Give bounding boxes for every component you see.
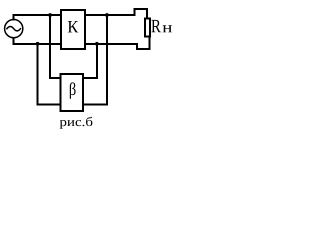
label K of amplifier [68,21,79,32]
junction dot: top output / feedback [105,13,109,17]
caption ris.b [60,117,93,129]
wire: load top staple [135,9,148,19]
label Rn of load resistor (n subscript) [163,25,172,32]
wire: load bottom staple [137,37,149,50]
junction dot: top input / feedback [48,13,52,17]
junction dot: bottom output / feedback [95,42,99,46]
amplifier block K [61,10,85,49]
label beta of feedback block [70,82,76,98]
wire: top input wire to K [14,14,62,16]
wire: right outer vertical from top output [106,15,108,104]
label Rn of load resistor (R) [151,20,160,32]
junction dot: bottom input / feedback [36,42,40,46]
resistor Rn body [145,18,150,36]
wire: right inner vertical from bottom output [96,44,98,78]
AC source G1 circle [5,20,23,38]
feedback block beta [61,74,84,111]
wire: right outer horizontal into beta [83,103,107,105]
AC source sine wave [7,27,21,31]
wire: source bottom stub [13,38,15,44]
wire: output bottom wire [85,43,137,45]
wire: output top wire [85,14,135,16]
wire: left outer vertical (feedback to bottom input) [37,44,39,105]
wire: bottom input wire to K [14,43,62,45]
wire: left outer horizontal into beta [38,103,61,105]
wire: source top stub [13,15,15,19]
wire: left inner vertical (feedback to top input) [49,15,51,78]
wire: right inner horizontal into beta [83,77,97,79]
wire: left inner horizontal into beta [50,77,61,79]
